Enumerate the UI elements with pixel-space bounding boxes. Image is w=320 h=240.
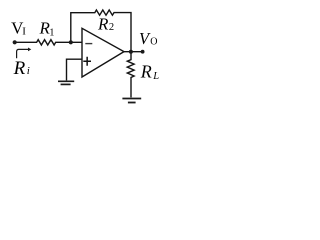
svg-text:O: O (150, 37, 157, 48)
svg-text:R: R (13, 58, 26, 79)
svg-text:R: R (97, 14, 109, 33)
svg-text:1: 1 (49, 28, 54, 39)
svg-text:2: 2 (109, 22, 114, 33)
svg-text:R: R (140, 62, 152, 82)
svg-text:i: i (27, 65, 30, 77)
svg-text:L: L (152, 71, 159, 82)
svg-text:I: I (22, 25, 26, 37)
